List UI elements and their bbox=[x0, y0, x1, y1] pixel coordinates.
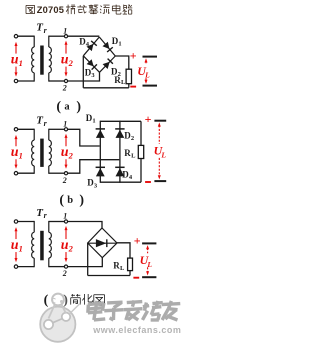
wire node2 to bridge bottom (c) bbox=[68, 258, 103, 267]
bridge left branch (b) bbox=[99, 121, 101, 183]
svg-text:2: 2 bbox=[68, 243, 74, 253]
svg-text:): ) bbox=[76, 100, 81, 115]
diode D1 (b) bbox=[96, 128, 105, 130]
svg-text:u: u bbox=[11, 238, 19, 253]
title char 路 bbox=[123, 5, 125, 10]
transformer Tr (c) secondary winding bbox=[48, 221, 50, 232]
svg-text:1: 1 bbox=[19, 150, 23, 160]
voltage UL (b) arrow bbox=[158, 125, 160, 144]
bridge edge D4 (a) bbox=[83, 37, 99, 56]
wire primary top (b) bbox=[18, 128, 34, 130]
resistor RL (a) bbox=[126, 69, 131, 84]
diode D3 (b) bbox=[96, 166, 105, 168]
svg-text:+: + bbox=[130, 49, 137, 63]
bottom rail (a) bbox=[83, 87, 129, 89]
output terminal bar top (b) bbox=[154, 120, 166, 122]
watermark logo links bbox=[49, 305, 55, 319]
svg-text:u: u bbox=[11, 52, 19, 67]
transformer Tr (b) primary terminal bottom bbox=[14, 172, 17, 175]
output terminal bar bottom (a) bbox=[143, 85, 158, 87]
bottom rail (c) bbox=[88, 275, 130, 277]
node 1 (c) bbox=[64, 220, 67, 223]
diode D4 (a) bbox=[87, 44, 94, 51]
svg-text:1: 1 bbox=[118, 40, 121, 47]
bridge bottom rail (b) bbox=[100, 181, 141, 183]
svg-text:+: + bbox=[134, 234, 141, 248]
title char 图 bbox=[26, 4, 35, 6]
title char 电 bbox=[115, 5, 117, 15]
output terminal bar bottom (c) bbox=[142, 276, 156, 278]
wire RL bottom (b) bbox=[140, 159, 142, 183]
bridge edge D2 (a) bbox=[100, 56, 116, 72]
wire primary bottom (c) bbox=[18, 266, 34, 268]
transformer Tr (c) primary terminal top bbox=[14, 220, 17, 223]
transformer Tr (c) primary winding bbox=[33, 221, 35, 232]
bridge edge D1 (a) bbox=[99, 37, 115, 56]
watermark text 电子发烧友 bbox=[94, 301, 97, 320]
output terminal bar top (c) bbox=[142, 242, 156, 244]
output terminal bar bottom (b) bbox=[154, 180, 166, 182]
svg-text:L: L bbox=[121, 79, 126, 86]
voltage u1 (a) arrow bbox=[15, 45, 17, 54]
wire primary top (a) bbox=[18, 35, 34, 37]
svg-text:u: u bbox=[61, 52, 69, 67]
svg-text:2: 2 bbox=[68, 58, 74, 68]
node 2 (b) bbox=[64, 172, 67, 175]
wire node1 to bridge top (a) bbox=[68, 35, 100, 37]
wire node2 to bridge bottom (a) bbox=[68, 72, 100, 81]
wire secondary top (b) bbox=[49, 128, 65, 130]
svg-text:1: 1 bbox=[19, 58, 23, 68]
diode D4 (b) bbox=[115, 166, 124, 168]
svg-text:L: L bbox=[146, 260, 152, 269]
svg-text:1: 1 bbox=[63, 26, 67, 35]
wire left vertex to bottom rail (c) bbox=[87, 243, 89, 276]
bridge block diamond (c) bbox=[88, 228, 117, 258]
wire left vertex to bottom rail (a) bbox=[82, 56, 84, 88]
voltage u2 (c) arrow bbox=[65, 229, 67, 239]
svg-text:2: 2 bbox=[68, 150, 74, 160]
node 2 (c) bbox=[64, 265, 67, 268]
svg-text:u: u bbox=[61, 145, 69, 160]
svg-text:(: ( bbox=[59, 193, 64, 208]
wire right vertex to RL (a) bbox=[115, 56, 129, 69]
resistor RL (b) bbox=[138, 145, 143, 158]
node 2 (a) bbox=[64, 79, 67, 82]
voltage u2 (b) arrow bbox=[65, 137, 67, 147]
diode D1 (a) bbox=[103, 42, 110, 49]
bridge right branch (b) bbox=[119, 121, 121, 183]
node 1 (a) bbox=[64, 35, 67, 38]
transformer Tr (b) primary winding bbox=[33, 129, 35, 140]
caption 简化图 bbox=[71, 294, 75, 296]
title char 流 bbox=[101, 6, 102, 7]
svg-text:a: a bbox=[64, 102, 70, 113]
wire secondary top (c) bbox=[49, 221, 65, 223]
svg-text:+: + bbox=[145, 112, 152, 126]
wire node1 to bridge top (c) bbox=[68, 222, 102, 229]
svg-text:2: 2 bbox=[131, 135, 134, 142]
wire secondary bottom (c) bbox=[49, 266, 65, 268]
wire secondary top (a) bbox=[49, 35, 65, 37]
output - sign (b) bbox=[145, 181, 151, 183]
transformer Tr (a) primary winding bbox=[33, 36, 35, 47]
output terminal bar top (a) bbox=[143, 56, 158, 58]
node 1 (b) bbox=[64, 128, 67, 131]
voltage u2 (a) arrow bbox=[65, 44, 67, 54]
transformer Tr (b) secondary winding bbox=[48, 129, 50, 140]
transformer Tr (a) primary terminal top bbox=[14, 35, 17, 38]
transformer Tr (a) secondary winding bbox=[48, 36, 50, 47]
bridge edge D3 (a) bbox=[83, 56, 99, 73]
svg-text:1: 1 bbox=[92, 117, 95, 124]
wire secondary bottom (a) bbox=[49, 80, 65, 82]
svg-text:(: ( bbox=[56, 100, 61, 115]
wire primary bottom (a) bbox=[18, 80, 34, 82]
wire right vertex to RL (c) bbox=[117, 243, 130, 258]
output - sign (c) bbox=[133, 277, 139, 279]
svg-text:u: u bbox=[61, 238, 69, 253]
wire RL bottom (a) bbox=[128, 84, 130, 88]
svg-text:b: b bbox=[67, 195, 73, 206]
svg-text:Z0705: Z0705 bbox=[37, 5, 64, 15]
output - sign (a) bbox=[130, 86, 136, 88]
wire primary top (c) bbox=[18, 221, 34, 223]
bridge block inner diode (c) bbox=[88, 242, 116, 244]
svg-text:1: 1 bbox=[63, 120, 67, 129]
bridge top rail (b) bbox=[100, 120, 141, 122]
wire node1 to bridge (b) bbox=[68, 129, 100, 146]
svg-text:(: ( bbox=[44, 293, 49, 308]
wire node2 to bridge (b) bbox=[68, 160, 120, 174]
output branch (b) bbox=[140, 121, 142, 145]
svg-text:): ) bbox=[63, 293, 68, 308]
svg-text:1: 1 bbox=[63, 212, 67, 221]
diode D3 (a) bbox=[87, 59, 94, 66]
svg-text:L: L bbox=[144, 71, 150, 80]
diode D2 (b) bbox=[115, 128, 124, 130]
svg-text:): ) bbox=[79, 193, 84, 208]
transformer Tr (c) primary terminal bottom bbox=[14, 265, 17, 268]
transformer Tr (a) primary terminal bottom bbox=[14, 79, 17, 82]
svg-text:2: 2 bbox=[62, 84, 67, 93]
voltage UL (c) arrow bbox=[147, 248, 149, 253]
wire secondary bottom (b) bbox=[49, 172, 65, 174]
transformer Tr (a) core bbox=[40, 46, 44, 75]
svg-text:1: 1 bbox=[19, 243, 23, 253]
title char 整 bbox=[89, 5, 94, 7]
title char 桥 bbox=[67, 5, 69, 15]
svg-text:2: 2 bbox=[62, 176, 67, 185]
svg-text:L: L bbox=[131, 153, 136, 160]
transformer Tr (c) core bbox=[40, 231, 44, 260]
svg-text:www.elecfans.com: www.elecfans.com bbox=[92, 325, 181, 335]
svg-text:L: L bbox=[160, 151, 166, 160]
wire primary bottom (b) bbox=[18, 172, 34, 174]
transformer Tr (b) core bbox=[40, 139, 44, 167]
resistor RL (c) bbox=[128, 258, 133, 271]
watermark logo disc bbox=[40, 307, 75, 342]
voltage u1 (c) arrow bbox=[15, 230, 17, 239]
svg-text:L: L bbox=[120, 265, 125, 272]
diode D2 (a) bbox=[103, 62, 110, 69]
svg-text:2: 2 bbox=[62, 269, 67, 278]
svg-text:u: u bbox=[11, 145, 19, 160]
voltage u1 (b) arrow bbox=[15, 138, 17, 146]
transformer Tr (b) primary terminal top bbox=[14, 128, 17, 131]
watermark logo ring bbox=[52, 294, 64, 306]
wire RL bottom (c) bbox=[129, 271, 131, 276]
title char 式 bbox=[77, 6, 87, 8]
voltage UL (a) arrow bbox=[145, 61, 147, 64]
